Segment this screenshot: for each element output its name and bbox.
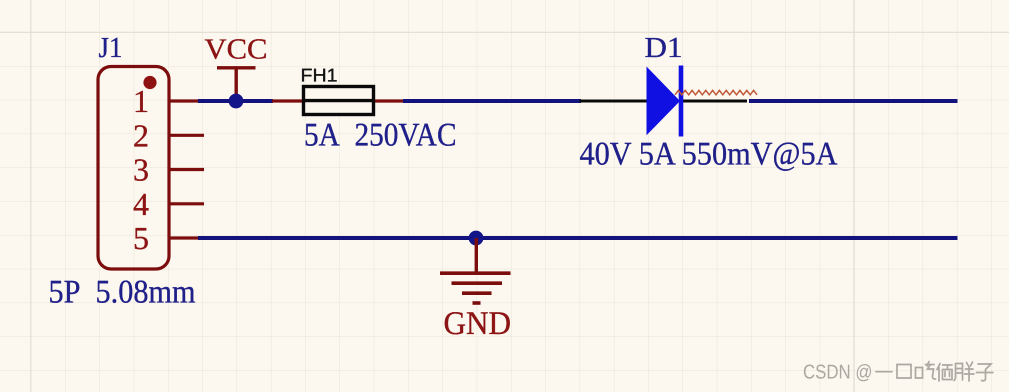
svg-text:5P 5.08mm: 5P 5.08mm bbox=[49, 275, 196, 311]
wire diode to right edge bbox=[749, 99, 958, 103]
ground symbol stem bbox=[475, 238, 478, 273]
junction dot at VCC bbox=[229, 94, 244, 109]
wire pin5 to right edge bbox=[198, 236, 958, 240]
svg-text:5A 250VAC: 5A 250VAC bbox=[304, 118, 457, 154]
svg-text:FH1: FH1 bbox=[301, 65, 338, 86]
svg-text:5: 5 bbox=[133, 220, 149, 256]
svg-text:CSDN @: CSDN @ bbox=[803, 362, 873, 384]
wire pin1 to fuse bbox=[198, 99, 273, 103]
svg-text:2: 2 bbox=[133, 117, 149, 153]
svg-text:VCC: VCC bbox=[205, 34, 268, 66]
svg-text:3: 3 bbox=[133, 152, 149, 188]
fuse FH1 right lead bbox=[374, 99, 404, 102]
svg-text:J1: J1 bbox=[99, 32, 123, 64]
fuse FH1 body bbox=[304, 87, 374, 115]
svg-text:1: 1 bbox=[133, 83, 149, 119]
ground symbol bar 4 bbox=[473, 301, 481, 305]
svg-text:40V 5A 550mV@5A: 40V 5A 550mV@5A bbox=[580, 137, 838, 173]
pin 1 lead bbox=[169, 99, 200, 102]
diode D1 cathode bar bbox=[679, 66, 684, 137]
connector pin-1 orientation dot bbox=[143, 76, 156, 89]
wire fuse to diode bbox=[403, 99, 581, 103]
fuse FH1 element line bbox=[304, 99, 374, 102]
power symbol VCC bar bbox=[217, 68, 256, 101]
svg-text:4: 4 bbox=[133, 186, 149, 222]
watermark chinese glyphs bbox=[876, 362, 993, 382]
junction dot at GND bbox=[469, 231, 484, 246]
ground symbol bar 3 bbox=[462, 291, 492, 295]
ground symbol bar 1 bbox=[440, 271, 511, 275]
pin 4 lead bbox=[169, 202, 204, 205]
svg-text:D1: D1 bbox=[645, 32, 683, 64]
connector J1 body bbox=[98, 67, 169, 270]
fuse FH1 left lead bbox=[272, 99, 304, 102]
pin 3 lead bbox=[169, 168, 204, 171]
diode D1 triangle bbox=[647, 67, 681, 136]
ground symbol bar 2 bbox=[452, 281, 503, 285]
diode D1 cathode lead bbox=[681, 100, 747, 103]
compile-error squiggle on D1 net bbox=[675, 90, 757, 94]
svg-text:GND: GND bbox=[444, 306, 512, 342]
pin 5 lead bbox=[169, 236, 200, 239]
pin 2 lead bbox=[169, 134, 204, 137]
diode D1 anode lead bbox=[580, 100, 648, 103]
